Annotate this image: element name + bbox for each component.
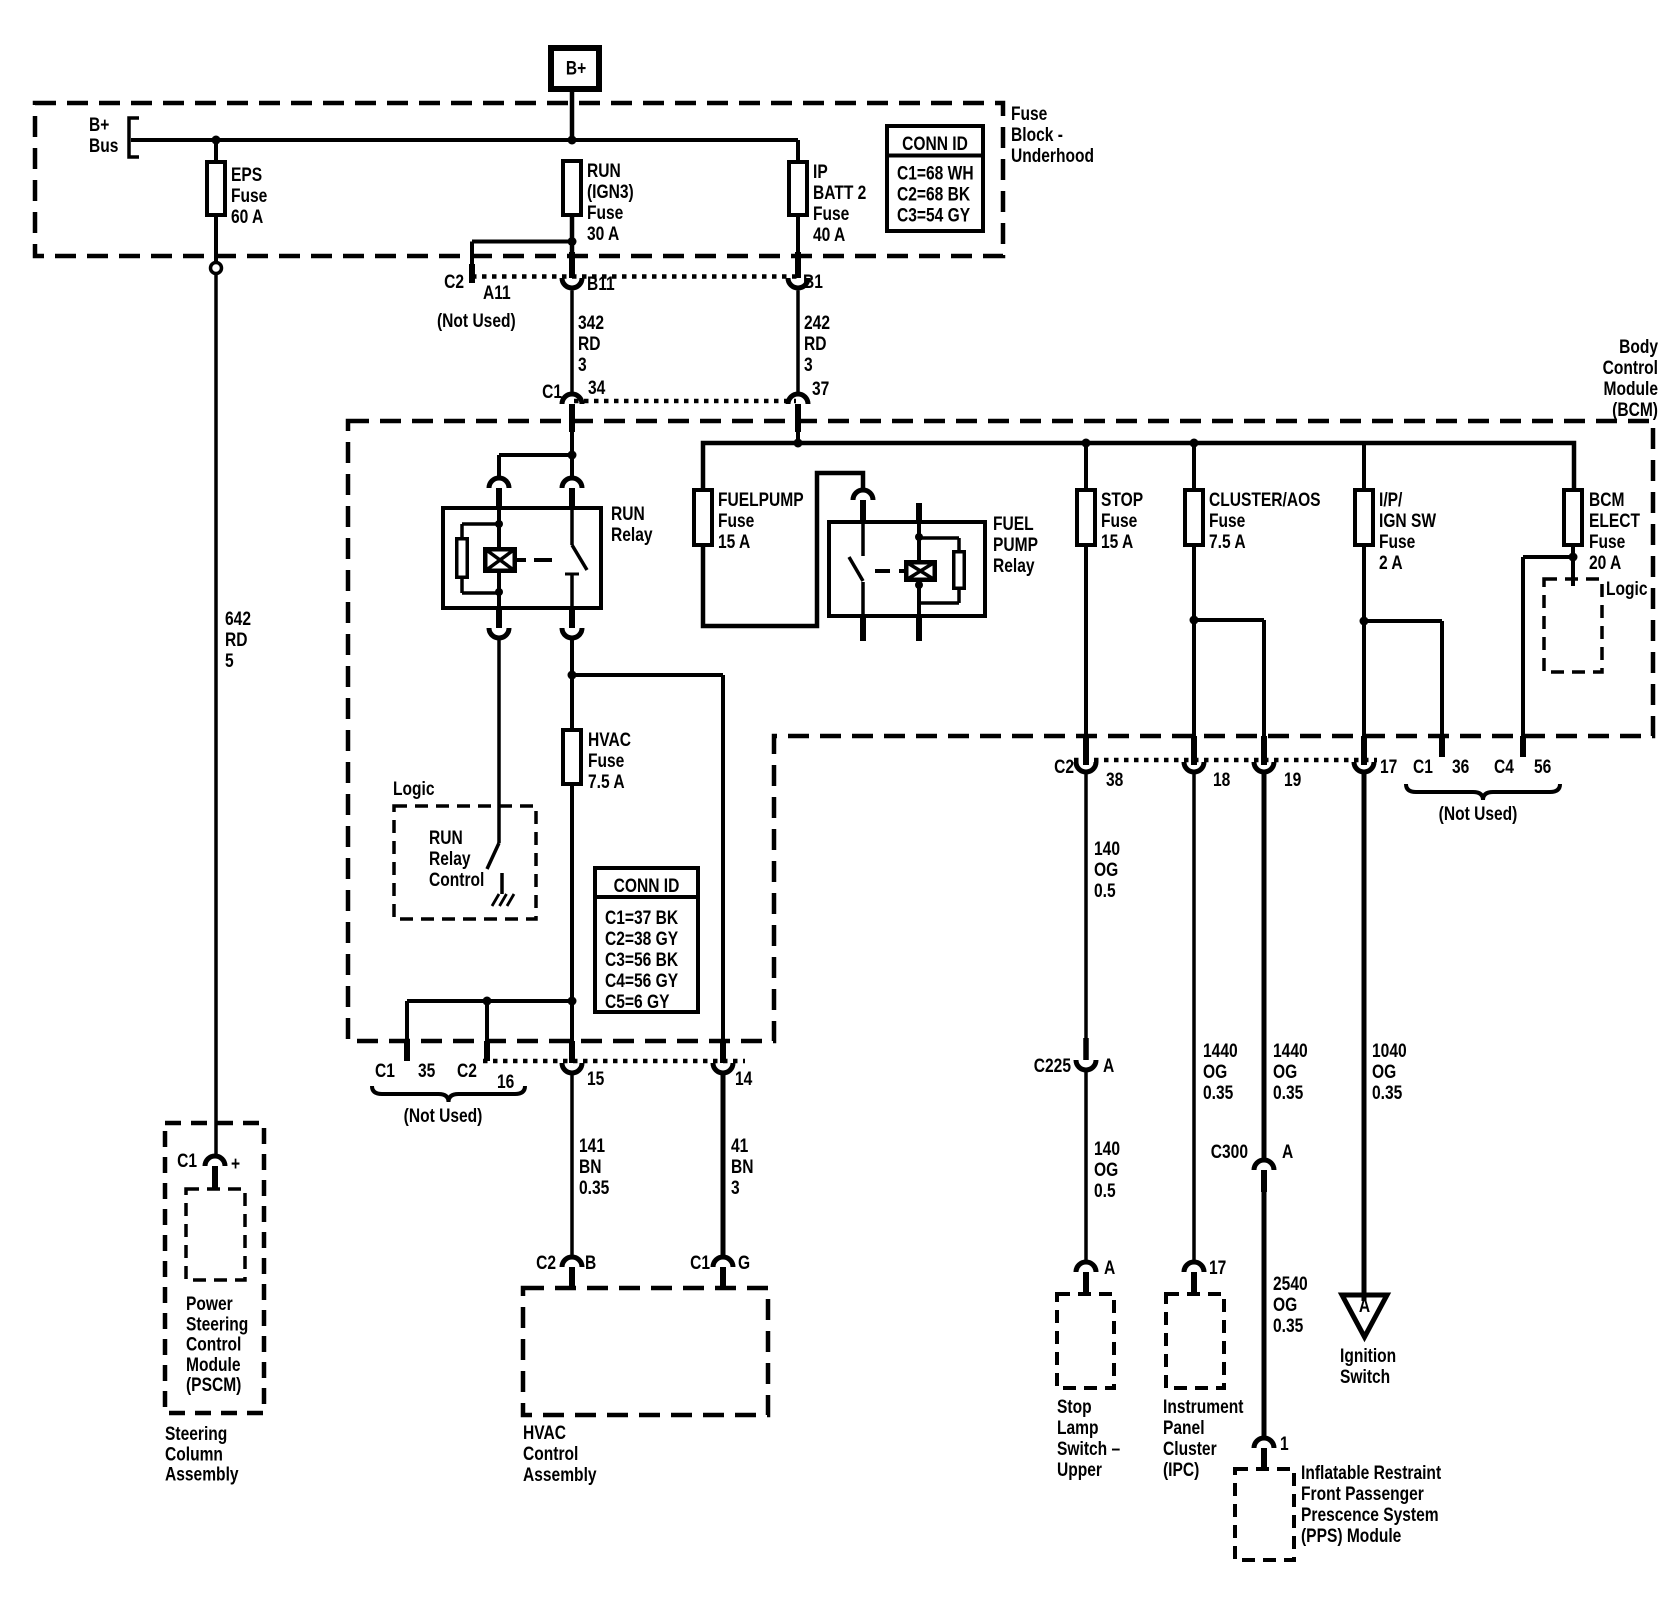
resistor in FP relay xyxy=(954,552,965,589)
FP relay switch contact lower xyxy=(861,582,865,616)
svg-text:0.35: 0.35 xyxy=(1372,1082,1403,1104)
svg-text:Steering: Steering xyxy=(186,1313,248,1335)
body control module (BCM) dashed outline xyxy=(348,421,1653,1041)
relay FUEL PUMP Relay box xyxy=(829,522,985,616)
svg-text:HVAC: HVAC xyxy=(523,1422,566,1444)
svg-text:Steering: Steering xyxy=(165,1423,227,1445)
inline connector C300 xyxy=(1254,1160,1274,1170)
svg-text:41: 41 xyxy=(731,1135,749,1157)
connector cup B1 xyxy=(788,278,808,288)
wire relay to HVAC fuse xyxy=(570,640,574,731)
svg-text:Inflatable Restraint: Inflatable Restraint xyxy=(1301,1462,1441,1484)
svg-text:C2: C2 xyxy=(536,1252,556,1274)
terminal stub FP relay pin 4 xyxy=(916,616,922,641)
svg-text:Lamp: Lamp xyxy=(1057,1417,1099,1439)
terminal stub PSCM C1 xyxy=(212,1166,218,1189)
FP relay resistor branch xyxy=(919,536,959,540)
wire EPS fuse to connector ring xyxy=(214,215,218,262)
svg-text:0.35: 0.35 xyxy=(579,1177,610,1199)
terminal stub C1/G xyxy=(720,1267,726,1289)
RUN relay switch contact upper xyxy=(570,508,574,545)
instrument panel cluster dashed box xyxy=(1166,1294,1224,1388)
fuse EPS 60A xyxy=(207,162,225,215)
junction dot bus/B+ feed xyxy=(568,136,577,145)
wire HVAC fuse down to 15 xyxy=(570,784,574,1041)
stop lamp switch dashed box xyxy=(1057,1294,1114,1388)
fuse block - underhood dashed box xyxy=(35,103,1003,256)
svg-text:140: 140 xyxy=(1094,838,1120,860)
svg-text:Stop: Stop xyxy=(1057,1396,1092,1418)
svg-text:RUN: RUN xyxy=(611,503,645,525)
svg-text:(IPC): (IPC) xyxy=(1163,1459,1199,1481)
svg-text:C2: C2 xyxy=(457,1060,477,1082)
svg-text:Control: Control xyxy=(523,1443,578,1465)
svg-text:C1: C1 xyxy=(177,1150,197,1172)
fuse HVAC 7.5A xyxy=(563,730,581,784)
svg-text:2540: 2540 xyxy=(1273,1273,1308,1295)
svg-text:Assembly: Assembly xyxy=(523,1464,597,1486)
svg-text:PUMP: PUMP xyxy=(993,534,1038,556)
terminal stub 18 xyxy=(1191,736,1197,765)
wire 1440 OG 0.35 (19) xyxy=(1262,774,1267,1158)
svg-text:Underhood: Underhood xyxy=(1011,145,1094,167)
svg-text:3: 3 xyxy=(804,354,813,376)
svg-text:Switch –: Switch – xyxy=(1057,1438,1120,1460)
svg-text:Fuse: Fuse xyxy=(1209,510,1246,532)
wire RUN fuse down xyxy=(570,215,575,256)
wire branch to C1-35 / C2-16 xyxy=(407,999,572,1003)
svg-text:Fuse: Fuse xyxy=(1011,103,1048,125)
svg-text:(Not Used): (Not Used) xyxy=(404,1105,483,1127)
connector cup RUN relay pin 4 xyxy=(562,628,582,638)
svg-text:I/P/: I/P/ xyxy=(1379,489,1403,511)
svg-text:Block -: Block - xyxy=(1011,124,1063,146)
CONN ID table (BCM) xyxy=(595,868,698,1012)
svg-text:A: A xyxy=(1103,1055,1115,1077)
wire 1040 OG 0.35 xyxy=(1362,774,1367,1301)
svg-text:5: 5 xyxy=(225,650,234,672)
relay RUN Relay box xyxy=(443,508,601,608)
svg-text:Bus: Bus xyxy=(89,135,118,157)
svg-text:OG: OG xyxy=(1094,1159,1118,1181)
svg-text:RD: RD xyxy=(578,333,600,355)
coil (box-X) FP relay xyxy=(906,562,935,580)
svg-text:HVAC: HVAC xyxy=(588,729,631,751)
svg-text:Switch: Switch xyxy=(1340,1366,1390,1388)
svg-text:17: 17 xyxy=(1380,756,1397,778)
terminal stub RUN relay pin 4 xyxy=(569,608,575,628)
terminal stub 17 xyxy=(1361,736,1367,765)
svg-text:15 A: 15 A xyxy=(1101,531,1134,553)
terminal stub RUN relay pin 2 xyxy=(569,488,575,510)
B+ Bus terminal bracket xyxy=(129,118,139,157)
terminal stub C2/A11 (not used) xyxy=(469,264,475,283)
svg-text:19: 19 xyxy=(1284,769,1302,791)
RUN relay switch contact lower xyxy=(565,573,579,576)
junction dot logic/56 branch xyxy=(1569,553,1578,562)
junction dot RUN relay feed xyxy=(568,451,577,460)
wire 642 RD 5 down to PSCM xyxy=(214,274,218,1155)
svg-text:ELECT: ELECT xyxy=(1589,510,1640,532)
ground symbol xyxy=(500,873,504,894)
svg-text:EPS: EPS xyxy=(231,164,262,186)
connector cup PPS pin 1 xyxy=(1254,1438,1274,1448)
svg-text:36: 36 xyxy=(1452,756,1470,778)
svg-text:30 A: 30 A xyxy=(587,223,620,245)
svg-text:B11: B11 xyxy=(587,273,615,295)
svg-text:C225: C225 xyxy=(1034,1055,1072,1077)
svg-text:Logic: Logic xyxy=(393,778,435,800)
svg-text:IP: IP xyxy=(813,161,828,183)
svg-text:Fuse: Fuse xyxy=(231,185,268,207)
svg-text:C2=38 GY: C2=38 GY xyxy=(605,928,678,950)
wire FUELPUMP fuse to FP relay xyxy=(703,473,863,626)
svg-text:+: + xyxy=(231,1153,240,1175)
terminal stub RUN relay pin 1 xyxy=(496,488,502,510)
svg-text:56: 56 xyxy=(1534,756,1552,778)
connector cup 17 xyxy=(1354,762,1374,772)
resistor in RUN relay xyxy=(457,539,468,578)
wire relay to RUN Relay Control logic xyxy=(497,640,501,843)
wire BCM ELECT fuse down xyxy=(1571,545,1575,586)
FP relay coil wire xyxy=(917,522,921,560)
svg-text:FUELPUMP: FUELPUMP xyxy=(718,489,804,511)
svg-text:60 A: 60 A xyxy=(231,206,264,228)
wire branch to A11 xyxy=(472,240,572,244)
svg-text:OG: OG xyxy=(1094,859,1118,881)
wire BCM internal power bus xyxy=(703,443,1574,490)
svg-text:0.5: 0.5 xyxy=(1094,880,1116,902)
wire branch to terminal 14 xyxy=(572,673,723,677)
svg-text:CLUSTER/AOS: CLUSTER/AOS xyxy=(1209,489,1321,511)
svg-text:Fuse: Fuse xyxy=(588,750,625,772)
svg-text:Fuse: Fuse xyxy=(1379,531,1416,553)
wire branch to 19 xyxy=(1194,618,1264,622)
inline connector C225 xyxy=(1083,1038,1089,1060)
terminal stub C1/35 xyxy=(404,1041,410,1061)
wire 41 BN 3 xyxy=(721,1075,726,1257)
terminal stub stop lamp switch xyxy=(1083,1272,1089,1294)
svg-text:141: 141 xyxy=(579,1135,605,1157)
svg-text:(IGN3): (IGN3) xyxy=(587,181,634,203)
dotted connector interface 16-15-14 xyxy=(483,1059,745,1064)
connector cup 19 xyxy=(1254,762,1274,772)
svg-text:15 A: 15 A xyxy=(718,531,751,553)
svg-text:C3=54 GY: C3=54 GY xyxy=(897,204,970,226)
svg-text:34: 34 xyxy=(588,377,606,399)
svg-text:RD: RD xyxy=(225,629,247,651)
connector ring at fuse block output xyxy=(211,263,222,274)
svg-text:0.35: 0.35 xyxy=(1273,1082,1304,1104)
brace not used 36/56 xyxy=(1406,784,1560,800)
svg-text:16: 16 xyxy=(497,1071,515,1093)
svg-text:BN: BN xyxy=(579,1156,601,1178)
svg-text:A: A xyxy=(1104,1257,1116,1279)
svg-text:Fuse: Fuse xyxy=(1101,510,1138,532)
svg-text:(PSCM): (PSCM) xyxy=(186,1374,241,1396)
svg-text:Fuse: Fuse xyxy=(1589,531,1626,553)
svg-text:C1=68 WH: C1=68 WH xyxy=(897,162,974,184)
svg-text:(PPS) Module: (PPS) Module xyxy=(1301,1525,1402,1547)
terminal stub C2/38 xyxy=(1083,736,1089,765)
junction dot bus/EPS xyxy=(212,136,221,145)
svg-text:CONN ID: CONN ID xyxy=(902,133,968,155)
svg-text:A: A xyxy=(1282,1141,1294,1163)
svg-text:A: A xyxy=(1359,1295,1371,1317)
wire bus to STOP fuse xyxy=(1084,443,1088,490)
svg-text:Relay: Relay xyxy=(611,524,653,546)
RUN relay switch blade xyxy=(572,545,587,570)
wire 2540 OG 0.35 xyxy=(1262,1192,1267,1438)
svg-text:Power: Power xyxy=(186,1293,233,1315)
svg-text:C4=56 GY: C4=56 GY xyxy=(605,970,678,992)
svg-text:C1: C1 xyxy=(375,1060,395,1082)
svg-text:C1=37 BK: C1=37 BK xyxy=(605,907,679,929)
svg-text:Upper: Upper xyxy=(1057,1459,1102,1481)
terminal stub C2/B xyxy=(569,1267,575,1289)
svg-text:B+: B+ xyxy=(566,57,586,79)
wire 242 RD 3 xyxy=(796,291,800,393)
svg-text:Fuse: Fuse xyxy=(813,203,850,225)
svg-text:B+: B+ xyxy=(89,114,109,136)
svg-text:Panel: Panel xyxy=(1163,1417,1205,1439)
PSCM inner dashed box xyxy=(186,1189,245,1280)
svg-text:Logic: Logic xyxy=(1606,578,1648,600)
svg-text:BATT 2: BATT 2 xyxy=(813,182,866,204)
svg-text:Instrument: Instrument xyxy=(1163,1396,1244,1418)
svg-text:Module: Module xyxy=(1604,378,1659,400)
svg-text:35: 35 xyxy=(418,1060,436,1082)
svg-text:Control: Control xyxy=(1603,357,1658,379)
connector cup PSCM C1 xyxy=(205,1156,225,1166)
steering column assembly dashed box xyxy=(165,1123,264,1413)
wire 342 RD 3 xyxy=(570,291,574,393)
svg-text:C2: C2 xyxy=(444,271,464,293)
FP relay actuation dashes xyxy=(875,569,904,573)
wire B+ bus horizontal xyxy=(131,138,798,142)
svg-text:15: 15 xyxy=(587,1068,605,1090)
svg-text:Column: Column xyxy=(165,1443,223,1465)
terminal stub 34 into BCM xyxy=(569,404,575,432)
svg-text:14: 14 xyxy=(735,1068,753,1090)
RUN relay resistor branch xyxy=(462,522,499,526)
svg-text:Assembly: Assembly xyxy=(165,1463,239,1485)
wire 140 OG 0.5 upper xyxy=(1084,774,1088,1038)
wire bus to CLUSTER fuse xyxy=(1192,443,1196,490)
svg-text:B1: B1 xyxy=(803,271,823,293)
terminal stub RUN relay pin 3 xyxy=(496,608,502,628)
connector cup C2/38 xyxy=(1076,762,1096,772)
fuse CLUSTER/AOS 7.5A xyxy=(1185,490,1203,545)
svg-text:RD: RD xyxy=(804,333,826,355)
svg-text:Control: Control xyxy=(186,1333,241,1355)
wire IGN SW fuse down xyxy=(1362,545,1366,736)
fuse IP BATT 2 40A xyxy=(789,162,807,215)
svg-text:Relay: Relay xyxy=(993,555,1035,577)
RUN relay actuation dashes xyxy=(517,558,552,562)
svg-text:Body: Body xyxy=(1619,336,1658,358)
terminal stub PPS xyxy=(1261,1448,1267,1469)
FP relay switch blade xyxy=(849,557,863,581)
svg-text:CONN ID: CONN ID xyxy=(614,875,680,897)
svg-text:0.35: 0.35 xyxy=(1273,1315,1304,1337)
junction dot 18/19 branch xyxy=(1190,616,1199,625)
terminal stub C2/16 xyxy=(484,1041,490,1061)
svg-text:3: 3 xyxy=(731,1177,740,1199)
connector cup stop lamp switch xyxy=(1076,1262,1096,1272)
logic dashed box xyxy=(394,806,536,919)
connector cup B11 xyxy=(562,278,582,288)
terminal stub 19 xyxy=(1261,736,1267,765)
svg-text:(Not Used): (Not Used) xyxy=(437,310,516,332)
connector cup C2/B HVAC xyxy=(562,1257,582,1267)
svg-text:OG: OG xyxy=(1203,1061,1227,1083)
terminal stub FP relay pin 1 xyxy=(860,500,866,522)
FP relay switch contact upper xyxy=(861,522,865,556)
terminal stub B11 xyxy=(569,252,575,278)
wire bus to I/P IGN SW fuse xyxy=(1362,443,1366,490)
svg-text:(Not Used): (Not Used) xyxy=(1439,803,1518,825)
fuse STOP 15A xyxy=(1077,490,1095,545)
junction dot FP coil top xyxy=(915,533,923,541)
CONN ID table (fuse block) xyxy=(887,126,983,231)
svg-text:C300: C300 xyxy=(1211,1141,1248,1163)
svg-text:0.35: 0.35 xyxy=(1203,1082,1234,1104)
connector cup FP relay pin 1 xyxy=(853,490,873,500)
junction dot FP coil bottom xyxy=(915,581,923,589)
fuse RUN (IGN3) 30A xyxy=(563,161,581,215)
svg-text:3: 3 xyxy=(578,354,587,376)
connector cup RUN relay pin 2 xyxy=(562,478,582,488)
svg-text:BN: BN xyxy=(731,1156,753,1178)
switch blade RUN relay control xyxy=(487,843,499,869)
wire 141 BN 0.35 xyxy=(570,1075,574,1257)
svg-text:STOP: STOP xyxy=(1101,489,1143,511)
svg-text:Fuse: Fuse xyxy=(718,510,755,532)
svg-text:Front Passenger: Front Passenger xyxy=(1301,1483,1424,1505)
svg-text:C3=56 BK: C3=56 BK xyxy=(605,949,679,971)
svg-text:7.5 A: 7.5 A xyxy=(588,771,625,793)
connector cup 14 xyxy=(713,1063,733,1073)
wire STOP fuse down xyxy=(1084,545,1088,736)
svg-text:1040: 1040 xyxy=(1372,1040,1407,1062)
junction dot bus/STOP xyxy=(1082,439,1091,448)
terminal stub 15 xyxy=(569,1041,575,1063)
dotted connector interface 34-37 xyxy=(574,399,796,404)
svg-text:C2: C2 xyxy=(1054,756,1074,778)
svg-text:C5=6 GY: C5=6 GY xyxy=(605,991,670,1013)
svg-text:B: B xyxy=(585,1252,596,1274)
svg-text:OG: OG xyxy=(1273,1061,1297,1083)
svg-text:G: G xyxy=(738,1252,750,1274)
connector cup RUN relay pin 3 xyxy=(489,628,509,638)
wire 37 to BCM bus xyxy=(796,432,800,443)
RUN relay coil wire xyxy=(497,508,501,547)
svg-text:37: 37 xyxy=(812,378,829,400)
svg-text:38: 38 xyxy=(1106,769,1124,791)
svg-text:C4: C4 xyxy=(1494,756,1514,778)
wire branch to C4/56 xyxy=(1523,555,1573,559)
brace not used 35/16 xyxy=(372,1086,525,1102)
terminal stub C4/56 (not used) xyxy=(1520,736,1526,757)
coil (box-X) RUN relay xyxy=(485,549,515,571)
svg-text:Relay: Relay xyxy=(429,848,471,870)
svg-text:Module: Module xyxy=(186,1353,241,1375)
connector cup 15 xyxy=(562,1063,582,1073)
svg-text:242: 242 xyxy=(804,312,830,334)
svg-text:C1: C1 xyxy=(690,1252,710,1274)
svg-text:1440: 1440 xyxy=(1203,1040,1238,1062)
svg-text:1440: 1440 xyxy=(1273,1040,1308,1062)
wire 34 into RUN relay xyxy=(570,432,574,455)
svg-text:(BCM): (BCM) xyxy=(1612,399,1658,421)
svg-text:Cluster: Cluster xyxy=(1163,1438,1217,1460)
svg-text:140: 140 xyxy=(1094,1138,1120,1160)
terminal stub IPC xyxy=(1191,1272,1197,1294)
svg-text:FUEL: FUEL xyxy=(993,513,1034,535)
junction dot 17/36 branch xyxy=(1360,617,1369,626)
logic dashed box (BCM ELECT) xyxy=(1544,579,1602,672)
junction dot HVAC/14 branch xyxy=(568,671,577,680)
svg-text:Ignition: Ignition xyxy=(1340,1345,1396,1367)
wire branch to C1/36 xyxy=(1364,619,1442,623)
svg-text:17: 17 xyxy=(1209,1257,1226,1279)
svg-text:18: 18 xyxy=(1213,769,1231,791)
junction dot not-used branch xyxy=(568,997,577,1006)
junction dot coil top xyxy=(495,520,503,528)
terminal stub C1/36 (not used) xyxy=(1439,736,1445,757)
connector cup C1/G HVAC xyxy=(713,1257,733,1267)
connector cup 18 xyxy=(1184,762,1204,772)
svg-text:0.5: 0.5 xyxy=(1094,1180,1116,1202)
svg-text:7.5 A: 7.5 A xyxy=(1209,531,1246,553)
svg-text:Fuse: Fuse xyxy=(587,202,624,224)
wire bus to EPS fuse xyxy=(214,140,218,162)
terminal stub 37 into BCM xyxy=(795,404,801,432)
wire 1440 OG 0.35 (18) xyxy=(1192,774,1196,1262)
junction dot A11 branch xyxy=(568,237,577,246)
svg-text:40 A: 40 A xyxy=(813,224,846,246)
connector cup IPC xyxy=(1184,1262,1204,1272)
svg-text:A11: A11 xyxy=(483,282,511,304)
junction dot bus/37 xyxy=(794,439,803,448)
svg-text:C2=68 BK: C2=68 BK xyxy=(897,183,971,205)
svg-text:C1: C1 xyxy=(542,381,562,403)
terminal stub FP relay pin 2 xyxy=(916,503,922,522)
svg-text:642: 642 xyxy=(225,608,251,630)
fuse I/P IGN SW 2A xyxy=(1355,490,1373,545)
connector cup RUN relay pin 1 xyxy=(489,478,509,488)
svg-text:RUN: RUN xyxy=(587,160,621,182)
wire IP fuse down xyxy=(796,215,800,256)
terminal stub FP relay pin 3 xyxy=(860,616,866,641)
svg-text:C1: C1 xyxy=(1413,756,1433,778)
svg-text:RUN: RUN xyxy=(429,827,463,849)
svg-text:OG: OG xyxy=(1273,1294,1297,1316)
junction coil bottom xyxy=(495,588,503,596)
svg-text:2 A: 2 A xyxy=(1379,552,1403,574)
PPS module dashed box xyxy=(1235,1469,1294,1560)
terminal stub 14 xyxy=(720,1041,726,1063)
svg-text:Control: Control xyxy=(429,869,484,891)
wire bus elbow to IP BATT 2 fuse xyxy=(796,140,800,162)
svg-text:20 A: 20 A xyxy=(1589,552,1622,574)
terminal stub B1 xyxy=(795,252,801,278)
junction dot bus/CLUSTER xyxy=(1190,439,1199,448)
wire 140 OG 0.5 lower xyxy=(1084,1072,1088,1262)
connector cup C1 34 xyxy=(562,394,582,404)
svg-text:OG: OG xyxy=(1372,1061,1396,1083)
